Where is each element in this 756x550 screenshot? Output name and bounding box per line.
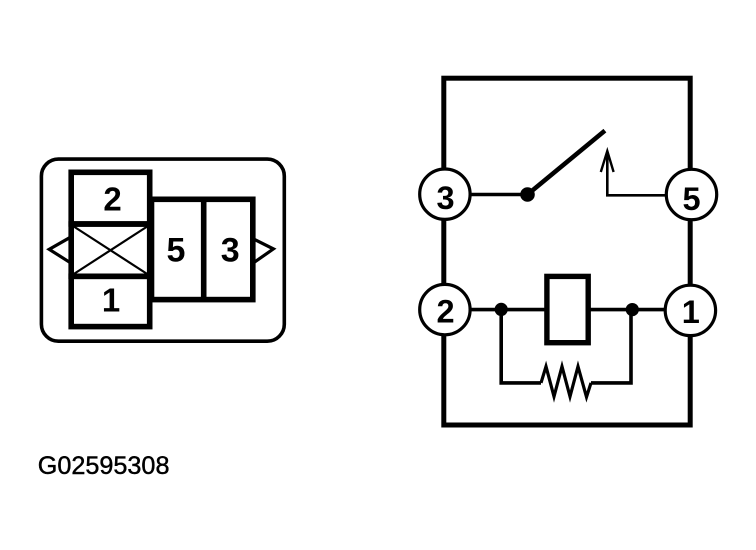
svg-text:1: 1 (682, 294, 700, 330)
svg-text:5: 5 (682, 181, 700, 217)
keyway cross diagonal 1 (73, 226, 148, 275)
right keying arrow (254, 239, 273, 262)
resistor branch left leg (501, 310, 541, 383)
wire: terminal 2 to coil (left segment) (446, 308, 546, 312)
switch blade (528, 131, 605, 195)
keyway cross diagonal 2 (73, 226, 148, 275)
terminal 1 (665, 285, 715, 335)
svg-text:2: 2 (436, 293, 454, 329)
wire: terminal 3 to switch pivot (446, 193, 527, 197)
figure ID label (38, 452, 170, 480)
resistor R (541, 367, 591, 398)
pin label 3 (221, 232, 240, 270)
switch pivot junction (520, 187, 535, 202)
svg-text:3: 3 (221, 232, 240, 270)
svg-text:G02595308: G02595308 (38, 452, 170, 480)
keyway box (71, 224, 150, 276)
svg-text:2: 2 (103, 181, 121, 218)
terminal box 2 (71, 172, 150, 224)
terminal group box 5/3 (152, 199, 253, 299)
relay coil (547, 276, 588, 342)
terminal 5 (666, 169, 716, 219)
svg-text:1: 1 (102, 282, 120, 319)
wire: coil to terminal 1 (right segment) (589, 308, 689, 312)
svg-text:3: 3 (436, 180, 454, 216)
actuation arrow (601, 151, 666, 195)
connector outline (41, 159, 284, 341)
pin label 2 (103, 181, 121, 218)
terminal group divider (201, 199, 207, 299)
svg-text:5: 5 (167, 232, 186, 270)
pin label 5 (167, 232, 186, 270)
terminal 2 (420, 284, 470, 334)
terminal box 1 (71, 276, 150, 326)
left keying arrow (49, 237, 70, 263)
junction dot right (626, 303, 639, 316)
pin label 1 (102, 282, 120, 319)
terminal 3 (420, 169, 470, 219)
resistor branch right leg (591, 310, 631, 383)
junction dot left (495, 303, 508, 316)
schematic frame (444, 78, 690, 425)
